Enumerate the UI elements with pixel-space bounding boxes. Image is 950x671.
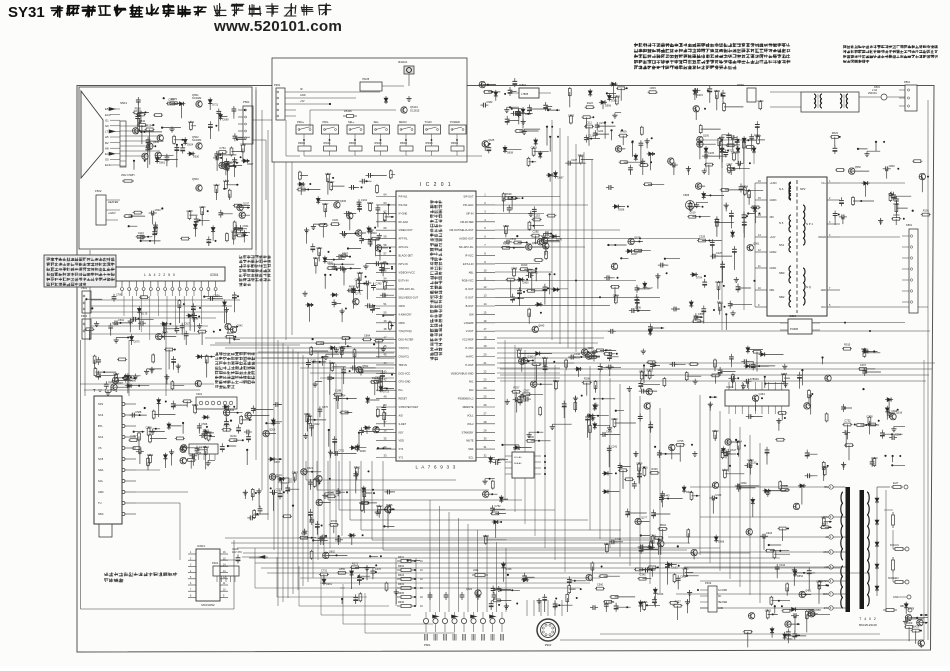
CRT board outline [79, 87, 252, 249]
svg-text:VDD: VDD [399, 439, 405, 443]
note text IC601 function [104, 573, 108, 576]
svg-text:C782: C782 [355, 278, 362, 282]
diode [587, 415, 589, 417]
resistor [723, 102, 725, 104]
ground [146, 369, 148, 372]
svg-text:D801: D801 [159, 162, 166, 165]
junction [773, 614, 798, 624]
svg-text:R330: R330 [521, 263, 528, 267]
IC201 right pin 9 [476, 263, 495, 265]
svg-text:78L05: 78L05 [362, 77, 370, 81]
capacitor [234, 133, 236, 136]
svg-text:PIF-IN2: PIF-IN2 [399, 203, 408, 207]
diode D5101 [385, 96, 387, 98]
diode [551, 289, 553, 291]
svg-text:IF-GND: IF-GND [399, 211, 408, 215]
transistor [373, 427, 379, 433]
svg-text:P601: P601 [424, 643, 431, 647]
capacitor [138, 236, 141, 238]
resistor [149, 454, 151, 456]
ground [107, 390, 109, 393]
resistor [616, 87, 618, 89]
capacitor [649, 324, 651, 327]
transformer primary winding NP2 [789, 182, 791, 200]
IC201 right pin 3 [476, 212, 495, 214]
svg-text:IC501: IC501 [210, 273, 219, 277]
resistor [687, 528, 689, 530]
svg-text:N A: N A [779, 187, 784, 191]
transistor [752, 395, 758, 401]
svg-text:R5001: R5001 [324, 142, 332, 145]
ground [505, 604, 507, 607]
resistor [490, 512, 492, 514]
transistor [712, 482, 718, 488]
transformer secondary winding N51 [789, 237, 791, 252]
diode [722, 446, 724, 448]
resistor [588, 356, 590, 358]
svg-text:R646: R646 [612, 417, 619, 421]
tuner shield tab [99, 524, 112, 537]
diode [194, 222, 196, 224]
resistor R603 [397, 578, 401, 580]
capacitor [526, 275, 529, 277]
svg-text:H-VCC: H-VCC [465, 346, 473, 350]
wire [128, 206, 250, 246]
junction [912, 210, 914, 212]
capacitor [722, 90, 724, 93]
IC501 pin 2 [128, 281, 130, 287]
IC201 left pin 40 [376, 254, 396, 256]
resistor [818, 580, 820, 582]
resistor [546, 215, 548, 217]
transformer pin 4 DRAIN [827, 236, 840, 238]
svg-text:C368: C368 [186, 209, 193, 213]
capacitor [329, 374, 331, 377]
ground [244, 490, 246, 493]
diode [138, 306, 140, 308]
connector P603 [82, 319, 91, 339]
svg-text:NC5: NC5 [98, 457, 104, 461]
svg-text:D276: D276 [556, 238, 563, 241]
junction [857, 148, 859, 150]
transistor [239, 212, 245, 218]
capacitor [382, 370, 384, 373]
transistor [541, 237, 547, 243]
svg-text:11: 11 [484, 277, 487, 281]
junction [312, 539, 314, 541]
svg-text:CPU-GND: CPU-GND [399, 380, 411, 384]
junction [632, 140, 634, 142]
flyback ABL resistor [883, 609, 886, 611]
transistor [353, 299, 359, 305]
resistor [574, 401, 576, 403]
svg-text:C367: C367 [523, 388, 530, 392]
resistor [136, 114, 138, 116]
border frame [77, 86, 934, 653]
ground [646, 138, 648, 141]
wire staircase IC201 bottom [305, 461, 307, 480]
svg-text:CRIN: CRIN [399, 304, 405, 308]
svg-text:R961: R961 [717, 301, 724, 305]
wire [491, 566, 520, 610]
junction [144, 407, 146, 409]
transistor [225, 323, 231, 329]
junction [308, 178, 366, 190]
resistor R601 [397, 560, 401, 562]
wire [226, 405, 282, 466]
inductor L601 [472, 574, 475, 576]
svg-text:R523: R523 [832, 131, 839, 135]
capacitor [137, 114, 139, 117]
capacitor [608, 445, 610, 448]
svg-text:PS080/BG-L2: PS080/BG-L2 [458, 397, 474, 401]
ground [498, 586, 500, 589]
svg-text:R5004: R5004 [400, 142, 408, 145]
capacitor [173, 356, 175, 359]
diode [513, 447, 515, 449]
IC601 right pin 13 [220, 572, 228, 574]
resistor [569, 87, 571, 89]
svg-text:R304: R304 [329, 361, 336, 365]
key resistor R5102 [349, 146, 362, 151]
svg-text:R107: R107 [322, 202, 329, 206]
resistor [228, 439, 230, 441]
svg-text:R601: R601 [398, 556, 405, 559]
resistor [386, 582, 388, 584]
svg-text:C855: C855 [339, 567, 346, 571]
resistor [658, 528, 660, 530]
flyback transformer T402 primary bar [846, 487, 851, 612]
svg-text:31: 31 [484, 445, 487, 449]
ground [506, 399, 508, 402]
resistor [643, 467, 645, 469]
capacitor [735, 162, 738, 164]
diode [367, 396, 369, 398]
transistor [586, 574, 592, 580]
svg-text:APC-FIL: APC-FIL [399, 245, 409, 249]
capacitor [585, 135, 587, 138]
resistor [357, 279, 359, 281]
resistor [128, 439, 130, 441]
tuner TU101 body [94, 396, 122, 524]
resistor [610, 596, 612, 598]
wire bus horizontal mid2 [300, 367, 394, 369]
svg-text:C190: C190 [574, 353, 581, 356]
svg-text:45: 45 [384, 353, 387, 357]
capacitor [311, 423, 313, 426]
svg-text:C911: C911 [113, 323, 119, 326]
junction [176, 144, 178, 146]
resistor [369, 202, 371, 204]
capacitor [511, 112, 514, 114]
ground [342, 346, 344, 349]
IC201 right pin 27 [476, 414, 495, 416]
junction [324, 274, 326, 276]
capacitor [213, 157, 216, 159]
wire [138, 104, 182, 167]
svg-text:Q637: Q637 [634, 237, 641, 240]
wire [503, 350, 601, 448]
capacitor [728, 377, 731, 379]
resistor [618, 135, 620, 137]
svg-text:C754: C754 [219, 146, 226, 150]
svg-text:13: 13 [484, 294, 487, 298]
svg-text:D530: D530 [193, 156, 200, 159]
svg-text:C541: C541 [243, 225, 250, 228]
svg-text:G5: G5 [105, 158, 109, 162]
IC601 left pin 6 [188, 584, 196, 586]
wire [674, 126, 765, 175]
resistor [389, 321, 391, 323]
junction [549, 273, 551, 275]
svg-text:X201: X201 [196, 392, 203, 396]
CRT pin ladder S501 [120, 121, 126, 167]
junction [654, 446, 656, 448]
svg-text:www.520101.com: www.520101.com [213, 18, 342, 35]
capacitor [662, 491, 664, 494]
transistor [693, 106, 699, 112]
capacitor [639, 390, 642, 392]
resistor R606 [397, 605, 401, 607]
capacitor [702, 155, 705, 157]
wire left horizontals audio [91, 299, 240, 301]
diode [589, 89, 591, 91]
svg-text:R411: R411 [382, 279, 389, 283]
resistor [226, 232, 228, 234]
resistor [868, 416, 870, 418]
junction [516, 235, 518, 237]
IC201 left pin 60 [376, 423, 396, 425]
svg-text:Q592: Q592 [362, 365, 369, 368]
svg-text:R170: R170 [380, 261, 387, 265]
svg-text:D830: D830 [657, 593, 664, 596]
transistor [586, 353, 592, 359]
key resistor R5106 [451, 146, 464, 151]
svg-text:NDC: NDC [98, 512, 104, 516]
transistor [375, 245, 381, 251]
transformer pin 14 26V [755, 216, 767, 218]
junction [236, 138, 238, 140]
svg-text:C361: C361 [306, 414, 313, 418]
junction [604, 121, 606, 123]
ground [694, 379, 696, 382]
resistor [806, 613, 808, 615]
capacitor [224, 166, 227, 168]
transistor [697, 136, 703, 142]
diode [690, 274, 692, 276]
ground [306, 228, 308, 231]
resistor [624, 478, 626, 480]
svg-text:FM-OUT/SEL/A-OUT: FM-OUT/SEL/A-OUT [449, 228, 473, 232]
ground [689, 590, 691, 593]
transformer pin 12 GND2 [755, 251, 767, 253]
transistor [644, 403, 650, 409]
capacitor [233, 292, 235, 295]
svg-text:C188: C188 [335, 389, 342, 393]
capacitor [185, 331, 187, 334]
transistor [245, 412, 251, 418]
capacitor [340, 232, 343, 234]
ground [530, 211, 532, 214]
wire key [380, 134, 382, 146]
resistor [716, 218, 718, 220]
IC201 right pin 30 [476, 440, 495, 442]
capacitor [881, 430, 883, 433]
capacitor [735, 485, 738, 487]
capacitor [587, 414, 589, 417]
IC601 right pin 10 [220, 590, 228, 592]
transistor [669, 444, 675, 450]
svg-text:G-OUT: G-OUT [465, 296, 474, 300]
junction [891, 464, 893, 466]
capacitor [760, 535, 763, 537]
resistor [778, 528, 780, 530]
svg-text:C832: C832 [741, 482, 748, 485]
svg-text:R806: R806 [553, 379, 560, 383]
resistor [716, 90, 718, 92]
transistor [356, 367, 362, 373]
IC201 left pin 56 [376, 389, 396, 391]
svg-text:AV1: AV1 [469, 380, 474, 384]
capacitor [727, 449, 729, 452]
wire keyboard down [285, 162, 287, 340]
capacitor [808, 567, 810, 570]
diode [794, 569, 796, 571]
IC201 left pin 51 [376, 347, 396, 349]
junction [855, 351, 901, 456]
svg-text:C617: C617 [730, 449, 737, 452]
svg-text:P501: P501 [243, 100, 250, 104]
transformer secondary winding NA [789, 183, 791, 199]
connector P501 [243, 106, 253, 144]
resistor [180, 238, 182, 240]
svg-text:V-RAMP: V-RAMP [464, 321, 474, 325]
svg-text:H8: H8 [105, 146, 109, 150]
capacitor [660, 495, 662, 498]
junction [216, 110, 248, 189]
transistor [483, 491, 489, 497]
capacitor [319, 406, 321, 409]
transistor [748, 613, 754, 619]
capacitor [834, 145, 836, 148]
AV jack RED [442, 618, 447, 623]
junction [774, 605, 776, 607]
svg-text:NB3: NB3 [779, 271, 785, 275]
capacitor [492, 505, 494, 508]
capacitor [192, 303, 194, 306]
transistor [849, 168, 855, 174]
CRT socket P902 [537, 619, 559, 641]
svg-text:R137: R137 [675, 600, 682, 604]
junction [512, 197, 558, 312]
flyback primary winding [841, 492, 843, 560]
ground [115, 338, 117, 341]
IC201 left pin 59 [376, 414, 396, 416]
svg-text:C410: C410 [138, 231, 145, 235]
diode [715, 535, 717, 537]
capacitor [733, 246, 735, 249]
junction [764, 376, 766, 378]
resistor [315, 257, 317, 259]
svg-text:L601: L601 [473, 569, 479, 572]
diode [759, 353, 761, 355]
capacitor [349, 186, 352, 188]
transistor [532, 326, 538, 332]
transistor [825, 375, 831, 381]
diode [539, 151, 541, 153]
resistor [137, 124, 139, 126]
resistor R604 [397, 587, 401, 589]
svg-text:R605: R605 [398, 592, 405, 595]
svg-text:DCD-VCC: DCD-VCC [399, 371, 411, 375]
capacitor [199, 435, 202, 437]
IC201 right pin 20 [476, 356, 495, 358]
svg-text:D854: D854 [797, 575, 804, 578]
EEPROM IC202 [512, 452, 534, 478]
svg-text:20: 20 [484, 353, 487, 357]
svg-text:R790: R790 [716, 280, 723, 284]
junction [230, 420, 232, 422]
capacitor [335, 539, 338, 541]
resistor [503, 197, 505, 199]
junction [140, 402, 211, 436]
diode [798, 485, 800, 487]
capacitor [350, 367, 353, 369]
capacitor [523, 398, 526, 400]
capacitor [640, 545, 642, 548]
capacitor [363, 282, 366, 284]
transistor [804, 403, 810, 409]
svg-text:C476: C476 [339, 345, 346, 349]
resistor [299, 537, 301, 539]
transformer pin 9 [755, 306, 767, 308]
transistor [157, 135, 163, 141]
svg-text:C912: C912 [314, 423, 321, 426]
ground [784, 364, 786, 367]
transistor Q601 [475, 590, 481, 596]
capacitor [333, 299, 335, 302]
svg-text:C846: C846 [889, 165, 896, 168]
resistor [123, 215, 125, 217]
svg-text:BSC25-Z2100: BSC25-Z2100 [859, 623, 877, 627]
resistor [641, 370, 643, 372]
capacitor [279, 490, 281, 493]
resistor [733, 151, 735, 153]
resistor [745, 146, 747, 148]
connector P801 AC plug [905, 85, 917, 111]
svg-text:C328: C328 [699, 235, 706, 239]
transformer pin 3 [827, 223, 840, 225]
svg-text:C713: C713 [516, 348, 523, 352]
resistor [350, 566, 352, 568]
resistor [867, 424, 869, 426]
wire [564, 350, 660, 440]
resistor [773, 549, 775, 551]
resistor [786, 582, 788, 584]
svg-text:C444: C444 [188, 120, 195, 124]
AV jack YELLOW [452, 618, 457, 623]
resistor [308, 415, 310, 417]
IC201 left pin 54 [376, 372, 396, 374]
wire [485, 460, 508, 540]
resistor [376, 184, 378, 186]
flyback pin 8 24V [829, 606, 833, 610]
ground [905, 619, 907, 622]
svg-text:49: 49 [384, 319, 387, 323]
ground [151, 367, 153, 370]
svg-text:Q645: Q645 [153, 141, 160, 144]
diode [202, 416, 204, 418]
